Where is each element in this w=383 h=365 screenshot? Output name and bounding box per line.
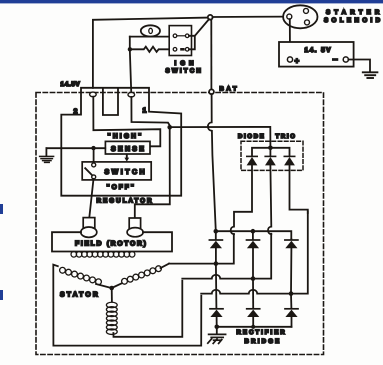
- svg-text:14. 5V: 14. 5V: [305, 47, 332, 54]
- left edge blue mark upper: [0, 204, 3, 214]
- stator bottom arm winding: [111, 288, 113, 302]
- svg-text:FIELD (ROTOR): FIELD (ROTOR): [75, 240, 148, 247]
- resistor (ballast): [130, 47, 169, 52]
- svg-text:BRIDGE: BRIDGE: [245, 338, 282, 345]
- terminal 2 (connector): [90, 92, 97, 97]
- svg-text:SWITCH: SWITCH: [105, 169, 148, 176]
- trio diode 2: [265, 155, 275, 157]
- phase row 2 with hop over chain1: [182, 234, 271, 279]
- stator left leg wire: [53, 265, 201, 346]
- SENSE box: [105, 141, 150, 154]
- phase riser C from trio diode3 routed right: [290, 165, 308, 213]
- battery: [279, 42, 354, 67]
- trio diode 1: [247, 155, 257, 157]
- junction dot trio: [268, 146, 273, 151]
- junction dot terminal1/trio/field feed: [167, 125, 172, 130]
- svg-text:RECTIFIER: RECTIFIER: [237, 329, 287, 336]
- wire ground bus to sense/switch: [46, 147, 105, 149]
- stator center node: [109, 286, 114, 291]
- ground (regulator): [45, 148, 47, 156]
- phase row 3 with hops over chain1 and chain2: [201, 211, 308, 293]
- wire field feed (down to brush bus): [135, 129, 170, 217]
- wire battery minus to ground: [348, 60, 370, 72]
- wire solenoid to battery plus: [289, 19, 291, 57]
- indicator lamp wire: [130, 36, 169, 38]
- rectifier bottom bus: [217, 326, 292, 328]
- svg-text:SOLENOID: SOLENOID: [324, 17, 383, 24]
- rectifier chain 1: top diode: [215, 231, 217, 239]
- svg-text:"OFF": "OFF": [107, 184, 136, 191]
- ground (battery): [363, 72, 378, 78]
- FIELD (ROTOR) box: [52, 232, 172, 251]
- SWITCH box: [82, 162, 151, 180]
- phase riser B from trio diode2 with hop over top bus: [268, 165, 271, 234]
- phase row 1 (stator right arm to rectifier): [169, 234, 234, 264]
- junction dot switch feed: [91, 146, 95, 150]
- stator right arm winding: [112, 283, 122, 288]
- brush left: [83, 218, 95, 229]
- terminal 1 (connector): [128, 92, 135, 97]
- wire terminal2 to top junction: [93, 18, 208, 88]
- regulator box with connector notches: [61, 88, 181, 196]
- junction dot bottom bus left: [215, 325, 220, 330]
- svg-text:DIODE: DIODE: [238, 133, 266, 140]
- wire terminal 1 lead to junction: [131, 97, 169, 127]
- svg-text:SENSE: SENSE: [111, 146, 146, 153]
- IGN switch contacts row2: [180, 48, 184, 51]
- svg-text:1: 1: [143, 108, 147, 115]
- diode trio bus: [252, 148, 290, 156]
- svg-text:+: +: [295, 57, 300, 66]
- starter solenoid: [283, 5, 317, 28]
- top blue bar: [0, 0, 383, 3]
- wire junction to starter solenoid: [213, 16, 287, 18]
- wire stator bottom arm to middle phase riser: [113, 281, 182, 337]
- switch contacts: [92, 163, 96, 167]
- chain1 continue to bottom diode: [215, 264, 218, 309]
- wire switch to left brush: [89, 179, 93, 218]
- svg-text:BAT: BAT: [220, 86, 240, 93]
- svg-text:STATOR: STATOR: [60, 291, 100, 298]
- node BAT: [209, 89, 214, 94]
- svg-text:2: 2: [74, 109, 78, 116]
- wire BAT vertical (junction to BAT node): [210, 20, 212, 90]
- wire BAT down with hop over trio feed: [208, 94, 216, 231]
- phase riser A from trio diode1 with hop over top bus: [231, 165, 252, 234]
- left edge blue mark lower: [0, 290, 3, 300]
- IGN switch contacts row1: [177, 35, 186, 37]
- indicator lamp: [141, 25, 160, 36]
- ground (rectifier): [216, 327, 218, 334]
- arrow SENSE to SWITCH: [126, 154, 128, 158]
- junction dot row3: [289, 291, 294, 296]
- wire lamp branch vertical to terminal 1: [130, 37, 132, 94]
- junction dot row1: [214, 261, 219, 266]
- node junction at top (splice): [208, 15, 213, 20]
- trio diode 3: [284, 155, 294, 157]
- diode trio dashed box: [241, 141, 303, 170]
- svg-text:STARTER: STARTER: [326, 9, 383, 16]
- rotor field coil: [71, 252, 135, 258]
- brush right: [129, 218, 140, 229]
- alternator case (dashed boundary): [36, 93, 324, 355]
- junction dot row2: [251, 276, 256, 281]
- svg-text:SWITCH: SWITCH: [166, 67, 204, 74]
- wire terminal 2 sense lead: [93, 97, 160, 147]
- wire IGN contacts to junction: [189, 36, 195, 50]
- junction dot lamp/resistor: [128, 47, 132, 51]
- rectifier top bus: [216, 231, 291, 239]
- IGN switch box: [169, 26, 191, 56]
- rectifier chain 3: [290, 238, 292, 241]
- svg-text:14.5V: 14.5V: [61, 81, 81, 88]
- wire diode trio feed: [172, 127, 271, 146]
- svg-text:−: −: [333, 55, 338, 65]
- svg-text:IGN: IGN: [175, 60, 198, 67]
- stator left arm winding: [60, 267, 102, 284]
- svg-text:"HIGH": "HIGH": [108, 133, 144, 140]
- rectifier chain 2: [252, 231, 254, 239]
- svg-text:TRIO: TRIO: [276, 133, 297, 140]
- svg-text:REGULATOR: REGULATOR: [97, 197, 154, 204]
